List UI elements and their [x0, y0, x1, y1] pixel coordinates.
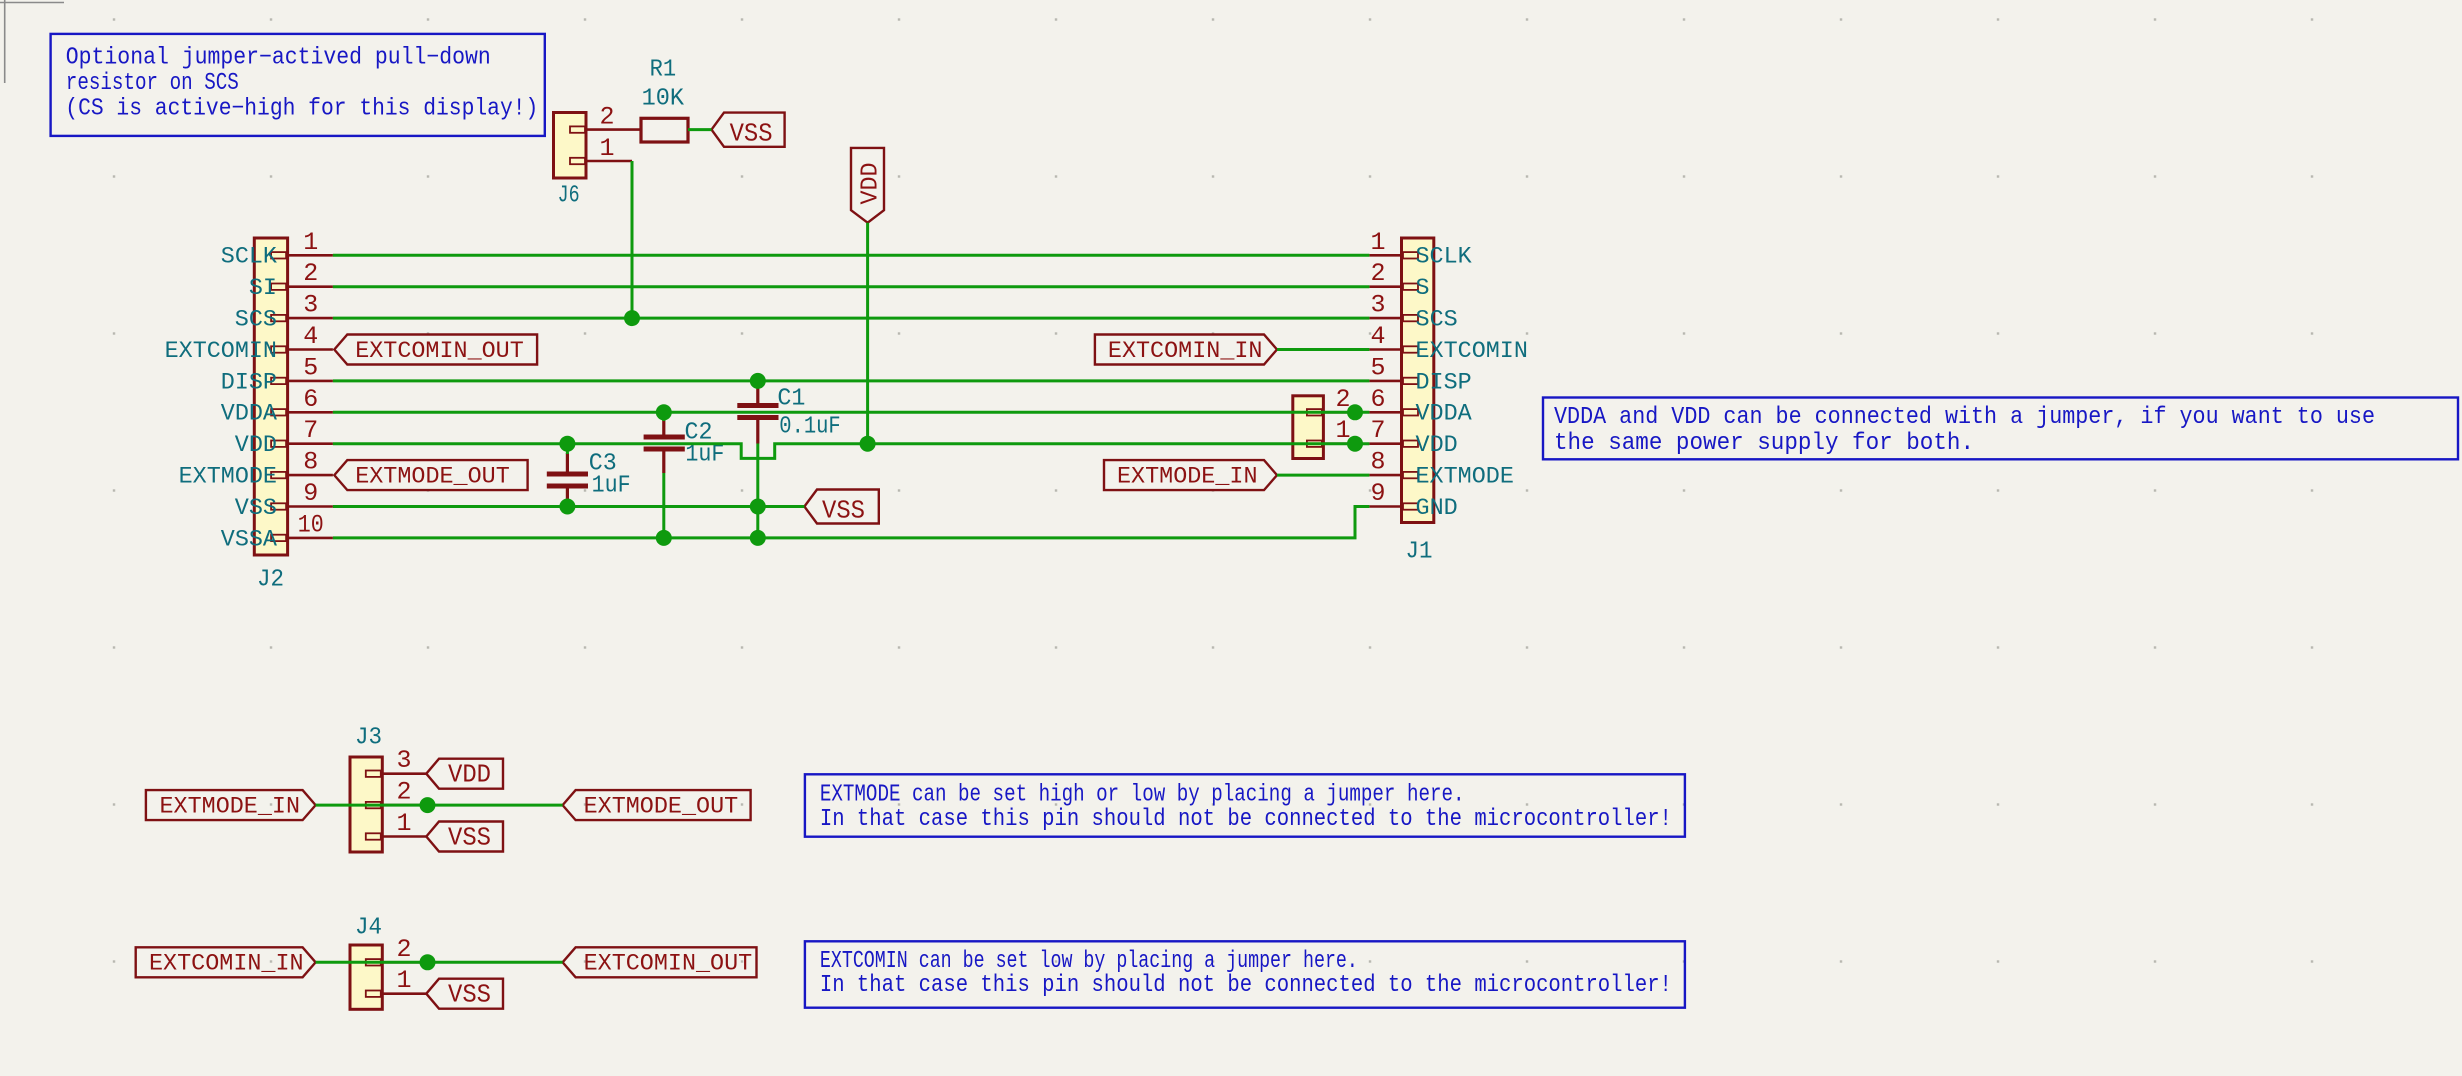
svg-text:VSSA: VSSA [221, 526, 278, 553]
hierarchical label EXTCOMIN_OUT (J4) [563, 947, 757, 977]
wire C2 bottom to VSSA [662, 473, 665, 538]
svg-text:EXTCOMIN can be set low by pla: EXTCOMIN can be set low by placing a jum… [820, 948, 1358, 975]
J1 pin 4 EXTCOMIN [1369, 322, 1528, 365]
svg-text:VDD: VDD [448, 760, 491, 790]
junction C3/VDD [559, 436, 575, 452]
J1 pin 5 DISP [1369, 353, 1471, 396]
power flag VSS (J4 pin1) [426, 979, 503, 1010]
capacitor C1 [737, 382, 840, 444]
svg-text:1uF: 1uF [592, 473, 631, 500]
hierarchical label EXTCOMIN_OUT (J2) [334, 335, 537, 365]
svg-text:EXTMODE_OUT: EXTMODE_OUT [355, 464, 510, 491]
junction VDD flag/VDD row [860, 436, 876, 452]
connector J4 [350, 915, 426, 1010]
svg-text:9: 9 [1370, 479, 1385, 508]
svg-text:VSS: VSS [822, 496, 865, 526]
J1 pin 3 SCS [1369, 291, 1457, 334]
svg-text:J1: J1 [1406, 539, 1433, 566]
svg-text:SCLK: SCLK [1416, 244, 1473, 271]
svg-text:VDDA: VDDA [1416, 401, 1473, 428]
svg-text:2: 2 [1370, 259, 1385, 288]
wire EXTCOMIN_IN to EXTCOMIN_OUT (J4) [316, 961, 563, 964]
svg-text:SI: SI [249, 275, 277, 302]
svg-text:EXTMODE_IN: EXTMODE_IN [160, 794, 301, 821]
svg-text:In that case this pin should n: In that case this pin should not be conn… [820, 972, 1672, 999]
junction jumper pin2/VDDA [1347, 404, 1363, 420]
wire C3 top stub [566, 444, 569, 454]
svg-text:1: 1 [599, 134, 614, 163]
svg-text:2: 2 [396, 935, 411, 964]
svg-text:2: 2 [599, 103, 614, 132]
svg-text:5: 5 [303, 353, 318, 382]
wire EXTMODE_IN to J1 pin8 [1277, 474, 1369, 477]
svg-text:1uF: 1uF [685, 442, 724, 469]
svg-text:VDD: VDD [1416, 432, 1458, 459]
J1 pin 8 EXTMODE [1369, 448, 1514, 491]
J1 pin 7 VDD [1369, 416, 1457, 459]
text note box EXTCOMIN [805, 941, 1685, 1007]
capacitor C3 [547, 451, 631, 506]
wire EXTMODE_IN to EXTMODE_OUT (J3) [316, 804, 563, 807]
svg-text:VSS: VSS [448, 980, 491, 1010]
power flag VDD (J3 pin3) [426, 759, 503, 790]
J1 pin 2 S [1369, 259, 1429, 302]
wire VDDA row [333, 411, 1370, 414]
svg-text:EXTMODE can be set high or low: EXTMODE can be set high or low by placin… [820, 782, 1465, 809]
J1 pin 9 GND [1369, 479, 1457, 522]
svg-text:EXTCOMIN_IN: EXTCOMIN_IN [149, 951, 304, 978]
svg-text:C1: C1 [777, 386, 805, 413]
wire J6 pin1 to SCS [631, 161, 634, 318]
svg-text:VDD: VDD [235, 432, 277, 459]
text note box VDDA/VDD [1543, 398, 2458, 460]
junction J6/SCS [624, 310, 640, 326]
wire VDD flag to VDD row [866, 223, 869, 444]
junction J4 pin2 [420, 954, 436, 970]
svg-text:SCS: SCS [1416, 307, 1458, 334]
wire SI row [333, 285, 1370, 288]
connector J6 [554, 103, 642, 210]
power flag VSS at R1 [712, 113, 785, 149]
junction C1/VSSA [750, 530, 766, 546]
J2 pin 2 SI [249, 259, 333, 302]
power flag VSS mid [804, 490, 878, 526]
wire VDD row with jog [333, 444, 1370, 459]
svg-text:1: 1 [1370, 228, 1385, 257]
resistor R1 [641, 57, 688, 143]
svg-text:EXTCOMIN: EXTCOMIN [165, 338, 277, 365]
J1 pin 6 VDDA [1369, 385, 1472, 428]
junction C3/VSS [559, 499, 575, 515]
wire C2 top stub [662, 412, 665, 421]
junction C1/VSS [750, 499, 766, 515]
hierarchical label EXTCOMIN_IN (J4) [136, 947, 316, 977]
wire SCLK row [333, 254, 1370, 257]
wire DISP row [333, 379, 1370, 382]
svg-text:EXTCOMIN_IN: EXTCOMIN_IN [1108, 338, 1263, 365]
hierarchical label EXTMODE_IN (J1) [1104, 460, 1277, 490]
svg-text:the same power supply for both: the same power supply for both. [1554, 430, 1974, 457]
svg-text:4: 4 [1370, 322, 1385, 351]
svg-text:6: 6 [1370, 385, 1385, 414]
svg-text:EXTCOMIN: EXTCOMIN [1416, 338, 1528, 365]
svg-text:1: 1 [396, 966, 411, 995]
junction dots [420, 310, 1364, 970]
hierarchical label EXTCOMIN_IN (J1) [1095, 335, 1277, 365]
svg-text:6: 6 [303, 385, 318, 414]
wire C3 bottom stub [566, 504, 569, 507]
svg-text:J6: J6 [558, 183, 580, 210]
junction C2/VSSA [656, 530, 672, 546]
svg-text:VSS: VSS [235, 495, 277, 522]
svg-text:2: 2 [303, 259, 318, 288]
J2 pin 7 VDD [235, 416, 333, 459]
svg-text:In that case this pin should n: In that case this pin should not be conn… [820, 806, 1672, 833]
svg-text:R1: R1 [650, 57, 677, 84]
svg-text:SCLK: SCLK [221, 244, 278, 271]
J2 pin 6 VDDA [221, 385, 333, 428]
text note box EXTMODE [805, 774, 1685, 836]
svg-text:0.1uF: 0.1uF [779, 414, 840, 441]
svg-text:7: 7 [303, 416, 318, 445]
text note box top-left [51, 34, 545, 136]
svg-text:(CS is active−high for this di: (CS is active−high for this display!) [65, 96, 538, 123]
svg-text:3: 3 [1370, 291, 1385, 320]
svg-text:1: 1 [303, 228, 318, 257]
svg-text:EXTCOMIN_OUT: EXTCOMIN_OUT [584, 951, 753, 978]
J2 pin 4 EXTCOMIN [165, 322, 333, 365]
svg-text:3: 3 [396, 746, 411, 775]
J2 pin 8 EXTMODE [179, 448, 333, 491]
svg-text:1: 1 [396, 809, 411, 838]
J2 pin 3 SCS [235, 291, 333, 334]
wire R1 to VSS flag [688, 128, 712, 131]
connector J1 [1402, 238, 1434, 566]
svg-text:VDDA: VDDA [221, 401, 278, 428]
svg-text:10: 10 [298, 510, 324, 539]
J2 pin 10 VSSA [221, 510, 333, 553]
jumper connector VDDA-VDD [1293, 385, 1355, 459]
connector J2 [254, 238, 287, 594]
power flag VSS (J3 pin1) [426, 822, 503, 853]
junction C2/VDDA [656, 404, 672, 420]
svg-text:9: 9 [303, 479, 318, 508]
hierarchical label EXTMODE_IN (J3) [146, 790, 316, 820]
svg-text:DISP: DISP [221, 369, 277, 396]
svg-text:8: 8 [303, 448, 318, 477]
svg-text:Optional jumper−actived pull−d: Optional jumper−actived pull−down [66, 45, 491, 72]
svg-text:VDD: VDD [858, 163, 885, 205]
svg-text:DISP: DISP [1416, 369, 1472, 396]
wire VSS row [333, 505, 805, 508]
power flag VDD top [851, 148, 885, 223]
svg-text:VSS: VSS [448, 823, 491, 853]
svg-text:2: 2 [396, 778, 411, 807]
wire C1 bottom to VSS and VSSA [756, 444, 759, 538]
hierarchical label EXTMODE_OUT (J3) [563, 790, 751, 820]
svg-text:VDDA and VDD can be connected: VDDA and VDD can be connected with a jum… [1554, 404, 2375, 431]
svg-text:J2: J2 [257, 567, 284, 594]
svg-text:EXTMODE_IN: EXTMODE_IN [1117, 464, 1258, 491]
svg-text:SCS: SCS [235, 307, 277, 334]
svg-text:VSS: VSS [730, 118, 773, 148]
svg-text:EXTMODE: EXTMODE [1416, 464, 1514, 491]
wire EXTCOMIN_IN to J1 pin4 [1277, 348, 1369, 351]
J1 pin 1 SCLK [1369, 228, 1472, 271]
J2 pin 5 DISP [221, 353, 333, 396]
svg-text:8: 8 [1370, 448, 1385, 477]
svg-text:10K: 10K [642, 85, 685, 112]
junction jumper pin1/VDD [1347, 436, 1363, 452]
J2 pin 1 SCLK [221, 228, 333, 271]
svg-text:J4: J4 [355, 915, 382, 942]
svg-text:7: 7 [1370, 416, 1385, 445]
connector J3 [350, 725, 426, 853]
J2 pin 9 VSS [235, 479, 333, 522]
svg-text:GND: GND [1416, 495, 1458, 522]
svg-text:EXTMODE: EXTMODE [179, 464, 277, 491]
svg-text:5: 5 [1370, 353, 1385, 382]
svg-text:J3: J3 [355, 725, 382, 752]
svg-text:resistor on SCS: resistor on SCS [66, 70, 239, 97]
hierarchical label EXTMODE_OUT (J2) [334, 460, 527, 490]
capacitor C2 [644, 420, 725, 473]
svg-text:3: 3 [303, 291, 318, 320]
wire SCS row [333, 317, 1370, 320]
svg-text:EXTMODE_OUT: EXTMODE_OUT [584, 794, 739, 821]
junction J3 pin2 [420, 797, 436, 813]
svg-text:EXTCOMIN_OUT: EXTCOMIN_OUT [355, 338, 524, 365]
svg-text:S: S [1416, 275, 1430, 302]
svg-text:4: 4 [303, 322, 318, 351]
junction C1/DISP [750, 373, 766, 389]
wire VSSA row [333, 507, 1370, 538]
